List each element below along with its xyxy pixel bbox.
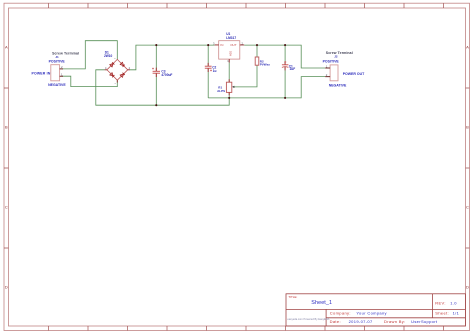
C2 bottom plate: [205, 67, 212, 69]
svg-text:NEGATIVE: NEGATIVE: [329, 84, 347, 88]
C3 pin stubs: [155, 68, 157, 77]
wire ADJ to pot: [228, 63, 230, 83]
wire C1 bottom: [284, 67, 286, 98]
svg-text:~: ~: [114, 56, 116, 60]
svg-text:2019-07-07: 2019-07-07: [349, 319, 373, 324]
J1 body: [51, 65, 60, 81]
svg-text:1uF: 1uF: [290, 67, 296, 71]
node R2 top rail: [256, 44, 258, 46]
screw terminal J1: [32, 51, 80, 87]
wire J1 pin2 to bridge top: [62, 41, 117, 69]
svg-text:POSITIVE: POSITIVE: [323, 60, 340, 64]
C2 pin stubs: [207, 63, 209, 72]
svg-text:REV:: REV:: [435, 300, 446, 305]
svg-text:LM317: LM317: [226, 36, 236, 40]
node C1 top rail: [284, 44, 286, 46]
frame row letters: [5, 45, 469, 290]
wire C2 bottom: [207, 69, 209, 98]
svg-text:easyeda.com Powered By EasyEDA: easyeda.com Powered By EasyEDA: [287, 317, 329, 321]
C3 top plate: [153, 70, 160, 72]
svg-text:ALPS: ALPS: [217, 89, 225, 93]
svg-text:Sheet_1: Sheet_1: [311, 300, 332, 306]
bridge pin stubs: [105, 70, 130, 83]
wire C1 top: [284, 45, 286, 65]
C1 pin stubs: [284, 62, 286, 71]
wire C2 top: [207, 45, 209, 66]
diode D1b top-right: [120, 62, 125, 67]
svg-text:UserSupport: UserSupport: [411, 319, 438, 324]
wire C3 top: [155, 45, 157, 71]
diode D1a top-left: [110, 62, 115, 67]
svg-text:ADJ: ADJ: [228, 50, 232, 56]
screw terminal J2: [323, 51, 366, 88]
C1 top plate: [282, 64, 289, 66]
svg-text:Your Company: Your Company: [356, 310, 387, 315]
node C3 ground: [155, 104, 157, 106]
capacitor C2: [205, 63, 217, 73]
svg-text:Drawn By:: Drawn By:: [384, 319, 406, 324]
wire bridge plus to top rail: [130, 45, 215, 70]
svg-text:D: D: [5, 285, 8, 290]
svg-text:Screw Terminal: Screw Terminal: [326, 51, 353, 55]
wire C3 bottom: [155, 73, 157, 105]
C1 polarity plus: [284, 61, 286, 63]
node C3 top rail: [155, 44, 157, 46]
wire R2 bottom to pot wiper: [234, 65, 257, 87]
regulator U1 LM317: [213, 32, 244, 63]
wire bridge minus to ground rail: [96, 70, 229, 105]
svg-text:IN: IN: [220, 43, 223, 47]
svg-text:D: D: [466, 285, 469, 290]
svg-text:J2: J2: [334, 54, 338, 58]
svg-text:A: A: [5, 45, 8, 50]
svg-text:1/1: 1/1: [453, 310, 460, 315]
R1 wiper arrow: [232, 86, 234, 88]
capacitor C3: [152, 68, 172, 77]
wire ground return rail: [208, 77, 325, 98]
svg-text:1.0: 1.0: [450, 300, 457, 305]
U1 body: [219, 41, 240, 59]
svg-text:C: C: [5, 205, 8, 210]
svg-text:A: A: [466, 45, 469, 50]
svg-text:Date:: Date:: [330, 319, 341, 324]
potentiometer R1: [217, 79, 234, 95]
svg-text:TITLE:: TITLE:: [288, 295, 297, 299]
C3 polarity plus: [152, 68, 154, 70]
resistor R2: [255, 57, 270, 67]
diode D1d bottom-left: [110, 73, 115, 78]
svg-text:2W10: 2W10: [104, 54, 113, 58]
svg-text:1u: 1u: [213, 69, 217, 73]
svg-text:B: B: [466, 125, 469, 130]
C2 top plate: [205, 65, 212, 67]
svg-text:OUT: OUT: [230, 43, 237, 47]
C2 polarity plus: [210, 69, 212, 71]
node C1 ground: [284, 97, 286, 99]
node pot ground: [228, 97, 230, 99]
svg-text:POSITIVE: POSITIVE: [49, 59, 66, 63]
diode D1c bottom-right: [120, 73, 125, 78]
J1 pin stubs: [60, 69, 63, 76]
svg-text:POWER OUT: POWER OUT: [343, 72, 365, 76]
node C2 top rail: [207, 44, 209, 46]
svg-text:Sheet:: Sheet:: [435, 310, 449, 315]
wire R2 top: [256, 45, 258, 57]
svg-text:C: C: [466, 205, 469, 210]
U1 pin stubs (IN, OUT, ADJ): [215, 45, 245, 63]
R1 body: [226, 82, 231, 92]
C1 bottom plate (curved): [282, 66, 289, 69]
svg-text:Company:: Company:: [330, 310, 351, 315]
svg-text:POWER IN: POWER IN: [32, 72, 51, 76]
C3 bottom plate: [153, 72, 160, 74]
wire top rail out section: [244, 45, 325, 68]
svg-text:B: B: [5, 125, 8, 130]
J2 body: [330, 65, 338, 81]
capacitor C1: [282, 61, 295, 71]
bridge rectifier D1: [104, 50, 131, 85]
junction dots: [155, 44, 286, 106]
wire pot bottom: [228, 92, 230, 98]
R1 pin stubs: [228, 79, 230, 95]
svg-text:PVWxx: PVWxx: [260, 63, 271, 67]
wire J1 pin1 to bridge bottom: [62, 76, 117, 86]
svg-text:~: ~: [114, 81, 116, 85]
J2 pin stubs: [325, 68, 330, 77]
D1 diamond outline: [107, 59, 128, 80]
R2 body: [255, 57, 259, 65]
svg-text:4700uF: 4700uF: [161, 73, 172, 77]
svg-text:NEGATIVE: NEGATIVE: [48, 83, 66, 87]
